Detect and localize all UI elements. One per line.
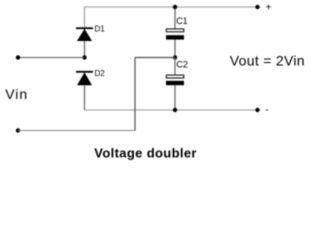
wire D1 anode to junction xyxy=(84,41,86,58)
node output - terminal xyxy=(255,108,259,112)
node output + terminal xyxy=(255,5,259,9)
svg-text:-: - xyxy=(265,105,268,116)
wire to C1/C2 junction xyxy=(135,57,175,59)
diode D1 xyxy=(76,27,93,41)
capacitor C2 xyxy=(166,75,184,85)
svg-text:+: + xyxy=(266,3,272,14)
capacitor C1 xyxy=(166,29,184,40)
node C2 bottom rail junction xyxy=(173,108,177,112)
svg-text:D2: D2 xyxy=(95,69,106,78)
node top rail / C1 junction xyxy=(173,5,177,9)
svg-text:Vin: Vin xyxy=(5,86,28,102)
wire C2 bottom lead xyxy=(174,85,176,110)
wire lower-left rail xyxy=(18,130,135,132)
svg-text:Vout = 2Vin: Vout = 2Vin xyxy=(230,53,305,69)
wire D2 anode down and right to bottom rail xyxy=(84,85,86,110)
svg-text:Voltage doubler: Voltage doubler xyxy=(94,146,197,161)
wire C1 top lead xyxy=(174,7,176,28)
wire left input xyxy=(18,57,85,59)
wire C2 top lead xyxy=(174,58,176,75)
wire from top rail down to D1 cathode xyxy=(84,7,86,28)
wire top rail xyxy=(85,6,258,8)
node junction between D1 and D2 xyxy=(82,55,86,59)
node left input terminal xyxy=(16,55,20,59)
wire C1 bottom lead xyxy=(174,40,176,58)
node junction between C1 and C2 xyxy=(173,55,177,59)
svg-text:C1: C1 xyxy=(176,16,188,26)
diode D2 xyxy=(76,71,93,85)
node lower-left input terminal xyxy=(16,128,20,132)
wire bottom rail xyxy=(85,109,258,111)
svg-text:D1: D1 xyxy=(95,25,106,34)
svg-text:C2: C2 xyxy=(176,60,188,70)
wire vertical return xyxy=(134,58,136,131)
